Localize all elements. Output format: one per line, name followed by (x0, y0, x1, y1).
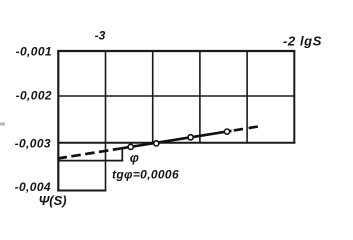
plot box right border (293, 50, 295, 144)
fitted line solid part (121, 131, 232, 149)
y-axis (57, 50, 59, 191)
svg-text:-0,003: -0,003 (15, 136, 51, 150)
svg-text:φ: φ (130, 150, 139, 165)
svg-text:tgφ=0,0006: tgφ=0,0006 (112, 168, 179, 182)
angle base horizontal line (58, 160, 123, 162)
angle vertical tick (121, 149, 123, 162)
grid vertical line x=247.1 (246, 51, 248, 143)
data point 4 (224, 129, 229, 134)
svg-text:-0,002: -0,002 (16, 89, 52, 103)
svg-text:Ψ(S): Ψ(S) (39, 193, 67, 208)
data point 2 (154, 141, 159, 146)
plot box top border (57, 50, 295, 52)
svg-text:-2 lgS: -2 lgS (283, 34, 322, 49)
scan artifact left edge (0, 123, 5, 126)
grid vertical line x=152.7 (152, 51, 154, 143)
grid horizontal line -0,003 (box bottom) (57, 142, 295, 144)
svg-text:-0,001: -0,001 (16, 45, 52, 59)
grid vertical line x=105.5 (105, 51, 107, 143)
grid horizontal line -0,002 (58, 95, 294, 97)
fitted line dashed left part (58, 148, 122, 158)
data point 1 (128, 144, 133, 149)
svg-text:-3: -3 (95, 29, 106, 43)
grid vertical line x=199.9 (199, 51, 201, 143)
sub-box bottom segment at -0,004 (57, 190, 106, 192)
data point 3 (188, 135, 193, 140)
sub-box right segment x=105.5 (105, 143, 107, 192)
fitted line dashed right part (234, 126, 259, 130)
svg-text:-0,004: -0,004 (15, 180, 51, 194)
